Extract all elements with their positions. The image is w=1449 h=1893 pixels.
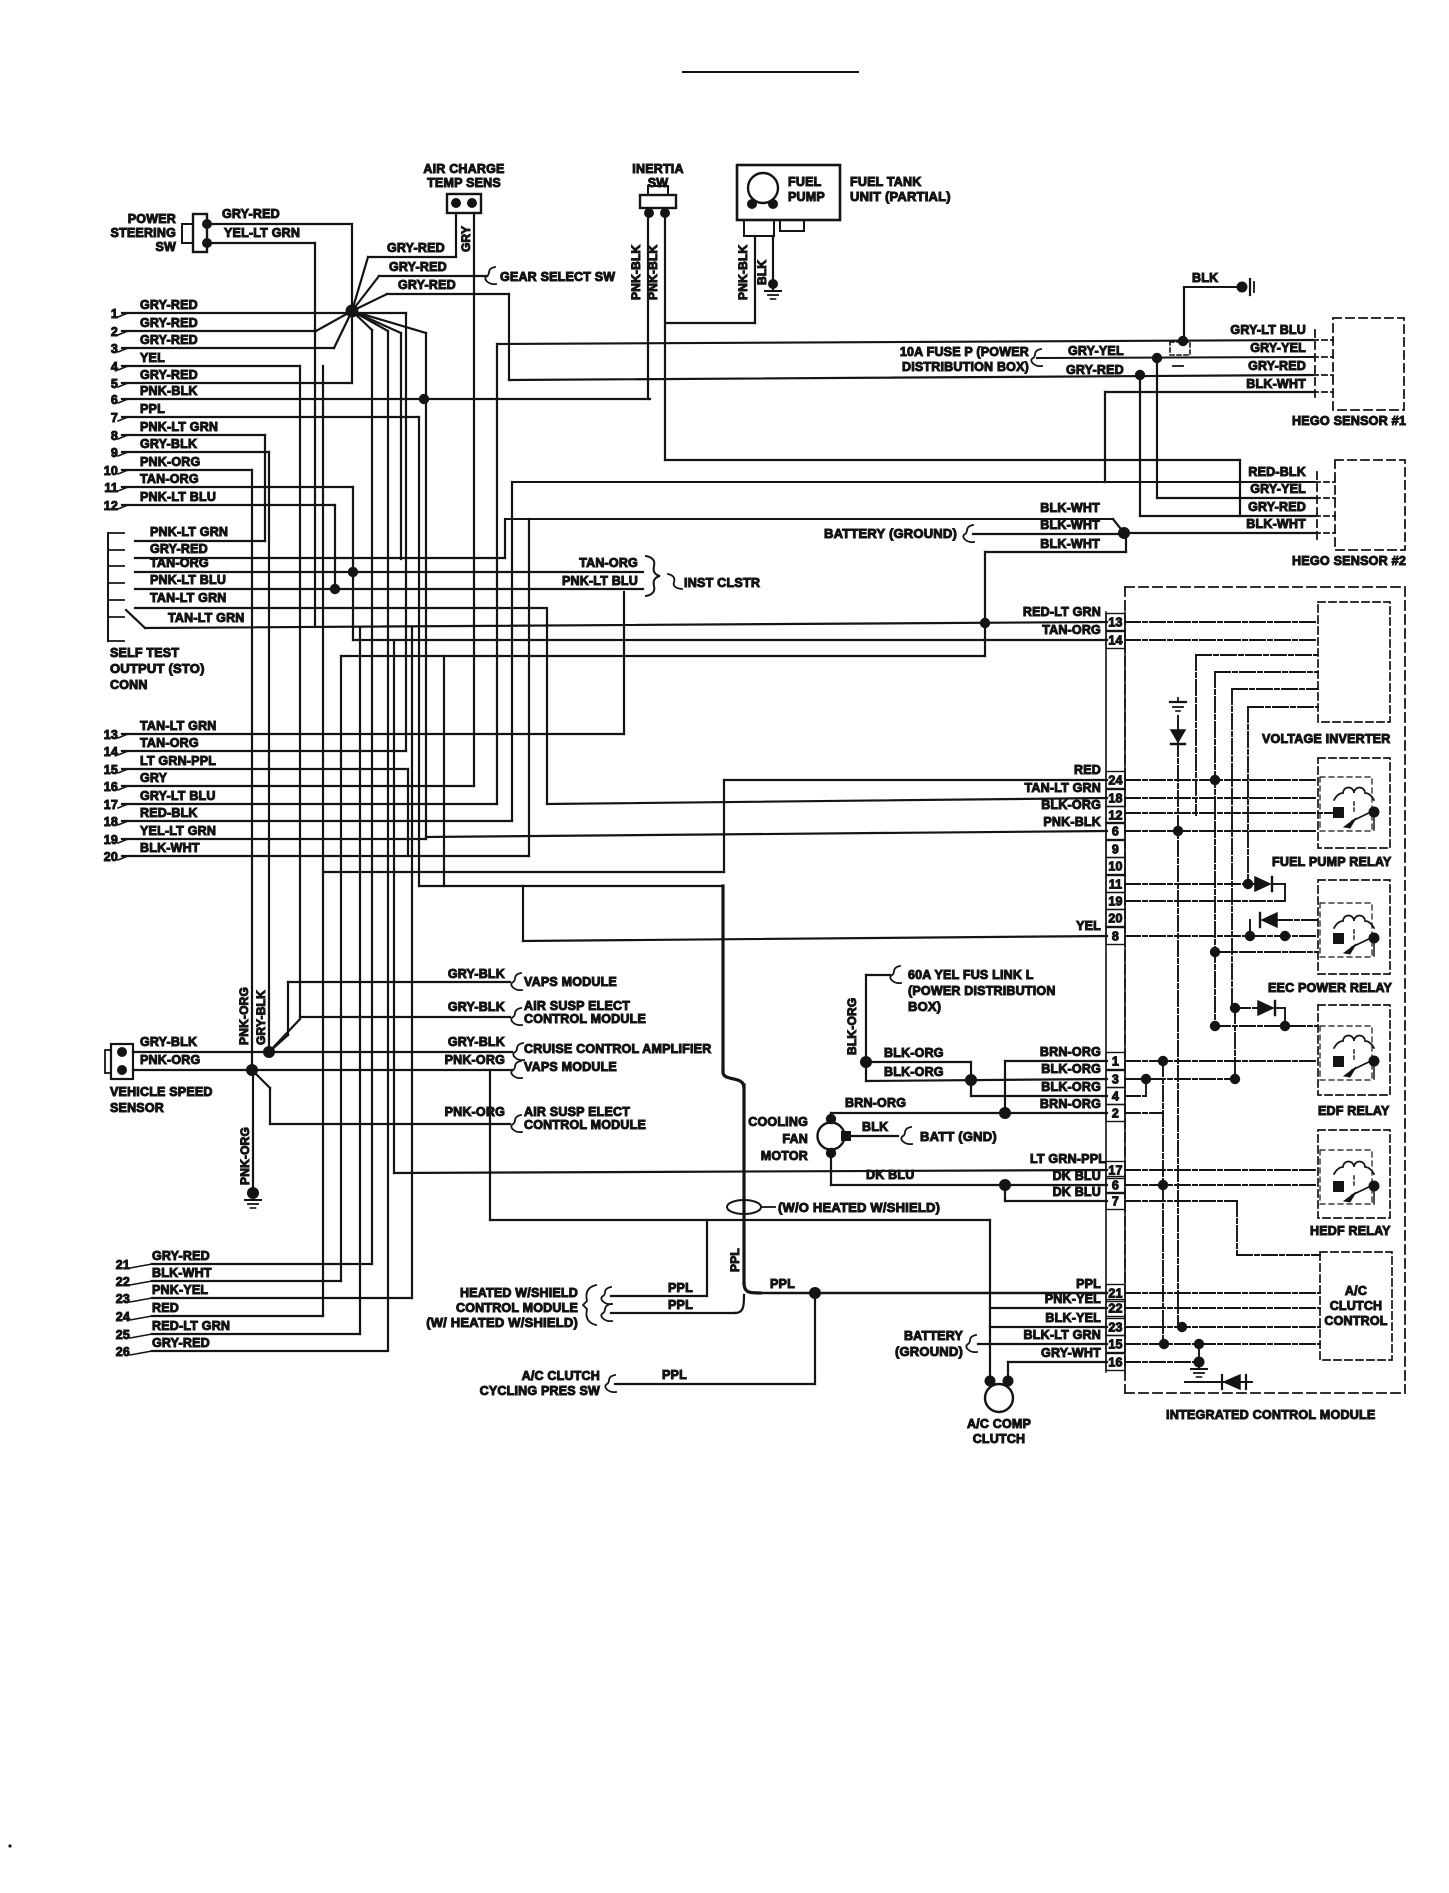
svg-text:GRY-RED: GRY-RED [140, 333, 198, 347]
svg-text:BLK-WHT: BLK-WHT [1246, 377, 1306, 391]
heated conn 1 [601, 1287, 612, 1304]
svg-text:GRY-YEL: GRY-YEL [1250, 482, 1306, 496]
svg-text:16: 16 [104, 780, 118, 794]
sto rung [108, 565, 124, 567]
wire heated ppl1 [611, 1295, 707, 1297]
svg-text:OUTPUT (STO): OUTPUT (STO) [110, 661, 205, 676]
ac clutch control box [1320, 1252, 1392, 1360]
wire row 26 [152, 1350, 388, 1352]
sto rung [108, 582, 124, 584]
svg-text:HEATED W/SHIELD: HEATED W/SHIELD [460, 1286, 578, 1300]
pin box 20 [1106, 910, 1125, 927]
svg-text:24: 24 [116, 1310, 130, 1324]
wire diag vaps [269, 1035, 288, 1052]
svg-text:PNK-ORG: PNK-ORG [140, 1053, 200, 1067]
junction v1178 831 [1173, 826, 1183, 836]
wire row 17 [122, 803, 497, 805]
wire V1163 [1162, 1061, 1164, 1344]
svg-text:14: 14 [1108, 634, 1122, 648]
wire V288 [287, 982, 289, 1035]
fan right terminal [841, 1131, 851, 1141]
svg-text:DK BLU: DK BLU [1053, 1169, 1101, 1183]
svg-text:CONTROL MODULE: CONTROL MODULE [524, 1012, 646, 1026]
batt gnd connector [901, 1127, 912, 1144]
svg-text:6: 6 [1112, 1179, 1119, 1193]
icm top edge [1125, 586, 1405, 588]
wire V353 row11 [352, 487, 354, 640]
wire pin22 icm [1125, 1307, 1320, 1309]
wire ps YEL-LT GRN [207, 242, 315, 244]
wire V1005b [1004, 1185, 1006, 1201]
wire pin8 icm [1125, 935, 1318, 937]
wire row 19 [122, 838, 426, 840]
vaps1 connector [511, 973, 522, 990]
wire pin18 icm [1125, 797, 1318, 799]
pin box 4 [1106, 1088, 1125, 1105]
wire HEGO2 GRY-YEL [1157, 497, 1315, 499]
svg-text:TAN-ORG: TAN-ORG [140, 472, 199, 486]
pin box 23 [1106, 1319, 1125, 1336]
wire V1215 [1214, 672, 1216, 1026]
wire fan BRN-ORG [831, 1112, 1107, 1114]
svg-text:LT GRN-PPL: LT GRN-PPL [1030, 1152, 1106, 1166]
junction battery [1118, 527, 1130, 539]
sto rung [108, 532, 124, 534]
wire V1250 [1249, 920, 1251, 936]
junction gryyel [1152, 353, 1162, 363]
svg-text:GRY-RED: GRY-RED [140, 298, 198, 312]
wire pin12 icm [1125, 812, 1333, 814]
svg-text:EDF RELAY: EDF RELAY [1318, 1104, 1390, 1118]
svg-text:21: 21 [116, 1258, 130, 1272]
acc dot2 [1003, 1376, 1014, 1387]
junction pin23 [1177, 1322, 1187, 1332]
wire airsusp2 [270, 1123, 510, 1125]
wire pin22 line [990, 1307, 1107, 1309]
fuel tank connector [744, 220, 774, 236]
wire V815 [814, 1293, 816, 1384]
svg-text:BATTERY (GROUND): BATTERY (GROUND) [824, 526, 957, 541]
svg-text:GRY-RED: GRY-RED [1248, 359, 1306, 373]
svg-text:19: 19 [1108, 895, 1122, 909]
wire pin11 icm [1125, 883, 1255, 885]
wire row 24 [152, 1315, 323, 1317]
ac pin1 [451, 198, 461, 208]
PPL trunk neck [723, 1072, 744, 1088]
wire airsusp1 [300, 1016, 510, 1018]
heated brace [583, 1285, 596, 1325]
wire pin18 line [547, 798, 1107, 804]
svg-text:BRN-ORG: BRN-ORG [1040, 1097, 1101, 1111]
eec coil [1334, 916, 1374, 929]
wire pin4 icm [1125, 1095, 1146, 1097]
junction blkorg [860, 1056, 872, 1068]
edf relay box [1318, 1005, 1390, 1095]
pin box 15 [1106, 1336, 1125, 1353]
hub junction [346, 305, 359, 318]
wire V1008 [1007, 1362, 1009, 1381]
wire pin1 icm [1125, 1060, 1318, 1062]
wire pin7 icm [1125, 1200, 1237, 1202]
wire V1196 [1195, 655, 1197, 815]
wire row 11 [122, 486, 353, 488]
svg-text:TAN-LT GRN: TAN-LT GRN [1024, 781, 1101, 795]
mark [8, 1844, 11, 1847]
svg-text:PPL: PPL [662, 1368, 687, 1382]
svg-text:4: 4 [111, 360, 118, 374]
junction vss2 [246, 1064, 258, 1076]
wire V1285a [1284, 884, 1286, 901]
svg-text:BLK-WHT: BLK-WHT [152, 1266, 212, 1280]
svg-text:BRN-ORG: BRN-ORG [1040, 1045, 1101, 1059]
wire pin3 icm [1125, 1078, 1235, 1080]
svg-text:GRY-RED: GRY-RED [398, 278, 456, 292]
svg-text:PPL: PPL [668, 1298, 693, 1312]
wire gear select [379, 275, 487, 277]
svg-text:DK BLU: DK BLU [866, 1168, 914, 1182]
fp ground dot [768, 279, 778, 289]
svg-text:GRY-YEL: GRY-YEL [1250, 341, 1306, 355]
wire fan up [830, 1113, 832, 1119]
wire V990 [989, 1220, 991, 1381]
wire V1105 [1104, 392, 1106, 482]
wire V971 [970, 1062, 972, 1096]
wire pin24 icm [1125, 779, 1318, 781]
svg-text:22: 22 [116, 1275, 130, 1289]
gear select connector [485, 267, 496, 284]
wire pin6b line [831, 1184, 1107, 1186]
svg-text:20: 20 [104, 850, 118, 864]
eec sw1 [1333, 933, 1344, 944]
svg-text:GEAR SELECT SW: GEAR SELECT SW [500, 270, 615, 284]
svg-text:TAN-ORG: TAN-ORG [1042, 623, 1101, 637]
svg-text:GRY-BLK: GRY-BLK [254, 990, 268, 1045]
svg-text:8: 8 [111, 429, 118, 443]
junction v1248 [1243, 879, 1253, 889]
svg-text:GRY-RED: GRY-RED [389, 260, 447, 274]
wire row 8 [122, 434, 265, 436]
svg-text:TAN-ORG: TAN-ORG [140, 736, 199, 750]
svg-text:CRUISE CONTROL AMPLIFIER: CRUISE CONTROL AMPLIFIER [524, 1042, 711, 1056]
wire BLK gnd [1184, 286, 1242, 288]
wire V401 [400, 333, 402, 559]
wire row 2 [122, 330, 316, 332]
cruise connector [513, 1043, 524, 1060]
svg-text:6: 6 [1112, 825, 1119, 839]
wire pin23 icm [1125, 1326, 1320, 1328]
hego2 box [1335, 460, 1405, 550]
junction v1215 780 [1210, 775, 1220, 785]
svg-text:TAN-LT GRN: TAN-LT GRN [140, 719, 217, 733]
svg-text:GRY-RED: GRY-RED [152, 1249, 210, 1263]
junction PPL [809, 1287, 821, 1299]
svg-text:GRY-YEL: GRY-YEL [1068, 344, 1124, 358]
svg-text:GRY-RED: GRY-RED [1066, 363, 1124, 377]
svg-text:PNK-LT BLU: PNK-LT BLU [150, 573, 226, 587]
svg-text:11: 11 [1109, 878, 1123, 892]
wire V1240 [1239, 460, 1241, 516]
wire V419 PPL [418, 417, 420, 886]
pin strip left [1105, 612, 1107, 1372]
wire V269 row9 [268, 452, 270, 1052]
pin box 22 [1106, 1300, 1125, 1317]
wire y1255 [1237, 1254, 1320, 1256]
wire V1005a [1004, 1061, 1006, 1113]
svg-text:PNK-BLK: PNK-BLK [140, 384, 198, 398]
fuel pump motor [748, 173, 778, 203]
icm left edge [1124, 587, 1126, 1393]
svg-text:SELF TEST: SELF TEST [110, 646, 179, 660]
wire V253 ground [252, 1070, 254, 1193]
svg-text:BLK-LT GRN: BLK-LT GRN [1024, 1328, 1101, 1342]
wire V474 GRY [473, 213, 475, 786]
airsusp2 connector [511, 1115, 522, 1132]
wire edf coil line [1215, 1025, 1318, 1027]
wire V315 down [314, 243, 316, 627]
fuse P connector [1031, 349, 1042, 366]
pin box 18 [1106, 790, 1125, 807]
wire pin13 icm [1125, 621, 1318, 623]
wire eec coil line [1277, 919, 1318, 921]
svg-text:EEC POWER RELAY: EEC POWER RELAY [1268, 981, 1393, 995]
svg-text:12: 12 [104, 499, 118, 513]
svg-text:9: 9 [1112, 843, 1119, 857]
eec power relay box [1318, 880, 1390, 974]
junction pin3 [1141, 1074, 1151, 1084]
svg-text:GRY: GRY [459, 226, 473, 252]
svg-text:7: 7 [111, 411, 118, 425]
wire row 3 [122, 347, 334, 349]
svg-text:GRY: GRY [140, 771, 168, 785]
wire row 7 [122, 416, 419, 418]
wire diag row2 [316, 311, 352, 331]
junction pin8 a [1245, 931, 1255, 941]
wire diag row3 [334, 311, 352, 348]
hedf relay inner box [1320, 1150, 1372, 1204]
sto rung [108, 549, 124, 551]
svg-text:CLUTCH: CLUTCH [1330, 1299, 1383, 1313]
svg-text:A/C COMP: A/C COMP [967, 1417, 1031, 1431]
icm diode left [1224, 1375, 1240, 1389]
svg-text:PPL: PPL [140, 402, 165, 416]
svg-text:A/C CLUTCH: A/C CLUTCH [522, 1369, 600, 1383]
svg-text:BRN-ORG: BRN-ORG [845, 1096, 906, 1110]
wire pin15 icm [1125, 1343, 1320, 1345]
wire BLK-WHT 1 [505, 518, 1113, 520]
svg-text:(POWER DISTRIBUTION: (POWER DISTRIBUTION [908, 984, 1056, 998]
junction pin15 b [1194, 1339, 1204, 1349]
svg-text:(W/O HEATED W/SHIELD): (W/O HEATED W/SHIELD) [778, 1200, 940, 1215]
wire fp BLK [772, 236, 774, 282]
junction dkblu [999, 1179, 1011, 1191]
pin box 8 [1106, 928, 1125, 945]
wire pin2 icm [1125, 1112, 1163, 1114]
svg-text:YEL-LT GRN: YEL-LT GRN [224, 226, 300, 240]
battery connector [963, 525, 974, 542]
wire V372 to row21 [371, 330, 373, 1263]
wire row 14 [122, 750, 406, 752]
wire V352 to hub [351, 224, 353, 311]
svg-text:17: 17 [1108, 1164, 1122, 1178]
wire pin7 line [1005, 1200, 1107, 1202]
svg-text:CYCLING PRES SW: CYCLING PRES SW [480, 1384, 600, 1398]
svg-text:21: 21 [1108, 1287, 1122, 1301]
wire row 13 [122, 733, 624, 735]
svg-text:POWER: POWER [128, 212, 176, 226]
wire pin21 line PPL [758, 1292, 1107, 1294]
wire icm diode line [1185, 1381, 1252, 1383]
wire V547 [546, 609, 548, 804]
svg-text:PPL: PPL [668, 1281, 693, 1295]
top rule [683, 71, 858, 73]
wire pin17 icm [1125, 1169, 1318, 1171]
wire pin21 icm [1125, 1292, 1320, 1294]
wire V505 [504, 519, 506, 558]
pin box 6 [1106, 823, 1125, 840]
inertia connector top [648, 186, 668, 195]
battery2 connector [966, 1335, 977, 1352]
svg-text:CONTROL MODULE: CONTROL MODULE [524, 1118, 646, 1132]
svg-text:GRY-BLK: GRY-BLK [448, 1000, 505, 1014]
svg-text:CONTROL: CONTROL [1324, 1314, 1387, 1328]
sto rung [108, 640, 124, 642]
wire V512 [511, 482, 513, 821]
svg-text:PNK-ORG: PNK-ORG [237, 987, 251, 1045]
wire fan down [830, 1153, 832, 1185]
svg-text:10A FUSE P (POWER: 10A FUSE P (POWER [900, 345, 1029, 359]
icm bottom edge [1125, 1392, 1405, 1394]
wire diode out [1272, 883, 1285, 885]
wire row 4 [122, 365, 300, 367]
wire V1178 [1177, 716, 1179, 1327]
svg-text:22: 22 [1108, 1302, 1122, 1316]
svg-text:PNK-YEL: PNK-YEL [1045, 1292, 1101, 1306]
air charge connector [447, 194, 481, 213]
svg-text:TAN-LT GRN: TAN-LT GRN [150, 591, 227, 605]
junction blk [1178, 336, 1188, 346]
wire sto4 to inst clstr [135, 588, 643, 590]
voltage inverter box [1318, 602, 1390, 722]
fp relay inner box [1320, 777, 1372, 831]
svg-text:PPL: PPL [728, 1248, 742, 1272]
fuel pump relay box [1318, 758, 1390, 848]
svg-text:PNK-LT GRN: PNK-LT GRN [140, 420, 218, 434]
airsusp1 connector [511, 1008, 522, 1025]
svg-text:RED-BLK: RED-BLK [1248, 465, 1306, 479]
svg-text:RED-LT GRN: RED-LT GRN [1023, 605, 1101, 619]
svg-text:FUEL TANK: FUEL TANK [850, 175, 921, 189]
wire diag bat [1113, 519, 1124, 533]
svg-text:SENSOR: SENSOR [110, 1101, 164, 1115]
wire vi1 [1196, 654, 1318, 656]
junction vss1 [263, 1046, 275, 1058]
svg-text:GRY-RED: GRY-RED [140, 316, 198, 330]
svg-text:YEL: YEL [140, 351, 165, 365]
svg-text:20: 20 [1108, 912, 1122, 926]
gnd dot right [1237, 282, 1248, 293]
icm right edge [1404, 587, 1406, 1393]
wire y656 [341, 655, 985, 657]
junction edf 3 [1210, 1021, 1220, 1031]
wire V265 row8 [264, 435, 266, 541]
inst clstr brace [646, 556, 660, 596]
acc dot1 [985, 1376, 996, 1387]
svg-text:BLK-ORG: BLK-ORG [845, 998, 859, 1055]
heated conn 2 [601, 1304, 612, 1321]
wire y872 RED [323, 871, 724, 873]
fp pin2 [768, 199, 778, 209]
wire ac cycling [615, 1383, 815, 1385]
wire pin14 icm [1125, 639, 1318, 641]
cooling fan motor [818, 1123, 845, 1150]
hedf relay box [1318, 1130, 1390, 1218]
svg-text:PPL: PPL [1076, 1277, 1101, 1291]
hedf sw1 [1333, 1181, 1344, 1192]
svg-text:14: 14 [104, 745, 118, 759]
wire heated join [735, 1295, 744, 1313]
svg-text:GRY-RED: GRY-RED [150, 542, 208, 556]
svg-text:PNK-LT BLU: PNK-LT BLU [140, 490, 216, 504]
gnd bars [1249, 279, 1251, 295]
svg-text:FAN: FAN [782, 1132, 808, 1146]
wire V1285b [1284, 1008, 1286, 1026]
inertia pin1 [644, 208, 654, 218]
pin strip right [1124, 612, 1126, 1372]
svg-text:VOLTAGE INVERTER: VOLTAGE INVERTER [1262, 732, 1390, 746]
svg-text:16: 16 [1108, 1356, 1122, 1370]
wire pin15 line [978, 1343, 1107, 1345]
icm gnd dot [1194, 1357, 1205, 1368]
svg-text:CLUTCH: CLUTCH [973, 1432, 1026, 1446]
svg-text:2: 2 [1112, 1107, 1119, 1121]
wire row 16 [122, 785, 474, 787]
wire V497 [496, 344, 498, 804]
wire vi2 [1215, 671, 1318, 673]
wire battery [973, 533, 1124, 535]
svg-text:MOTOR: MOTOR [761, 1149, 808, 1163]
wire row 15 [122, 768, 408, 770]
pin box 9 [1106, 841, 1125, 858]
svg-text:60A YEL FUS LINK L: 60A YEL FUS LINK L [908, 968, 1034, 982]
wire BLK-WHT 3 [985, 551, 1126, 553]
svg-text:1: 1 [1112, 1055, 1119, 1069]
junction sto pnkltblu [330, 584, 340, 594]
svg-text:BLK-ORG: BLK-ORG [884, 1046, 944, 1060]
sto rung [108, 616, 124, 618]
vss ground dot [247, 1187, 259, 1199]
svg-text:BLK-ORG: BLK-ORG [884, 1065, 944, 1079]
ac cycling connector [605, 1375, 616, 1392]
svg-text:7: 7 [1112, 1195, 1119, 1209]
svg-text:8: 8 [1112, 930, 1119, 944]
svg-text:GRY-BLK: GRY-BLK [448, 1035, 505, 1049]
svg-text:STEERING: STEERING [111, 226, 177, 240]
hego2 connector strip [1316, 472, 1318, 543]
svg-text:1: 1 [111, 307, 118, 321]
wire GRY-RED long to HEGO1 [509, 375, 1313, 380]
ac comp clutch [985, 1384, 1013, 1412]
wire row 10 [122, 469, 252, 471]
svg-text:FUEL PUMP RELAY: FUEL PUMP RELAY [1272, 855, 1392, 869]
svg-text:TAN-LT GRN: TAN-LT GRN [168, 611, 245, 625]
svg-text:A/C: A/C [1345, 1284, 1367, 1298]
wire row 1 [122, 312, 406, 314]
svg-text:9: 9 [111, 446, 118, 460]
wire 60A top [866, 974, 890, 976]
junction pin6b [1158, 1180, 1168, 1190]
wire V300 row4 [299, 366, 301, 1017]
svg-text:GRY-RED: GRY-RED [1248, 500, 1306, 514]
